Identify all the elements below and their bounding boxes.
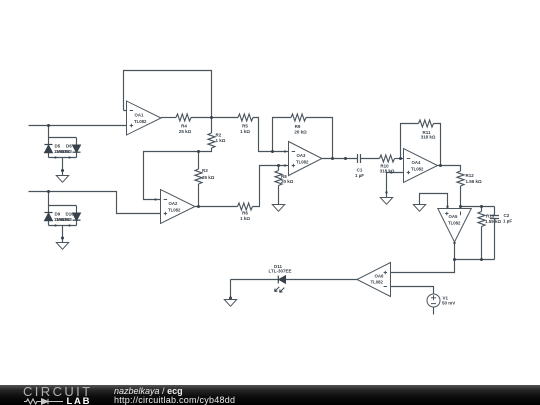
- svg-text:R9: R9: [295, 124, 301, 129]
- wire input B to OA2 plus: [29, 192, 161, 214]
- wire OA1 output: [161, 117, 176, 119]
- capacitor C2: [490, 216, 499, 219]
- svg-text:R3: R3: [202, 168, 208, 173]
- svg-text:TL082: TL082: [296, 159, 309, 164]
- wire OA2 output: [195, 206, 238, 208]
- resistor R11: [419, 120, 434, 127]
- svg-text:R12: R12: [466, 173, 475, 178]
- svg-text:TL082: TL082: [411, 166, 424, 171]
- svg-text:1N6263: 1N6263: [56, 149, 72, 154]
- node R4 R5 R2 feedback junction: [210, 116, 213, 119]
- LED D11: [275, 276, 286, 293]
- footer bar: [0, 385, 540, 405]
- wire OA4 output: [438, 166, 461, 172]
- wire R4 to node: [191, 117, 238, 119]
- svg-text:20 kΩ: 20 kΩ: [281, 179, 294, 184]
- wire R5 to OA3 minus: [253, 118, 289, 152]
- wire R8 to ground: [278, 186, 280, 205]
- svg-text:R6: R6: [242, 210, 248, 215]
- svg-text:OA2: OA2: [169, 201, 178, 206]
- resistor R2: [208, 133, 215, 148]
- resistor R12: [457, 171, 464, 186]
- CircuitLab logo LAB: [67, 396, 92, 405]
- wire input A to OA1 plus: [29, 125, 127, 127]
- op-amp OA1: [127, 101, 162, 135]
- resistor R8: [275, 171, 282, 186]
- capacitor C1: [358, 154, 361, 163]
- svg-text:TL082: TL082: [134, 119, 147, 124]
- svg-text:50 mV: 50 mV: [442, 300, 455, 305]
- wire OA5 output: [391, 242, 495, 273]
- svg-text:R4: R4: [181, 124, 187, 129]
- wire R12 to OA5 minus: [460, 186, 462, 209]
- node R13 bottom terminal: [480, 258, 483, 261]
- ground (OA4 plus): [380, 198, 392, 205]
- svg-text:TL082: TL082: [168, 207, 181, 212]
- node input A tap: [47, 124, 50, 127]
- svg-text:318 kΩ: 318 kΩ: [380, 169, 395, 174]
- logo resistor and diode glyph: [24, 398, 63, 403]
- wire R8 top: [278, 166, 280, 171]
- resistor R5: [238, 114, 253, 121]
- op-amp OA5 (pointing down): [438, 209, 472, 243]
- resistor R6: [238, 203, 253, 210]
- svg-text:LTL-307EE: LTL-307EE: [269, 269, 292, 274]
- wire R2 top: [211, 118, 213, 134]
- CircuitLab logo CIRCUIT: [23, 384, 93, 399]
- resistor R9: [291, 114, 306, 121]
- op-amp OA2: [161, 190, 195, 224]
- node C1 left terminal: [344, 157, 347, 160]
- wire R10 to OA4 minus: [395, 158, 404, 160]
- node OA4 minus feedback junction: [399, 157, 402, 160]
- svg-text:R5: R5: [242, 124, 248, 129]
- svg-text:C1: C1: [357, 167, 363, 172]
- wire R13 top: [481, 207, 483, 212]
- node ground terminal pair2: [61, 237, 64, 240]
- node OA3 plus R8 junction: [277, 164, 280, 167]
- ground (diode pair 2): [56, 243, 68, 250]
- svg-text:1N6263: 1N6263: [56, 217, 72, 222]
- svg-text:TL082: TL082: [448, 220, 461, 225]
- svg-text:1 kΩ: 1 kΩ: [240, 216, 250, 221]
- wire OA1 feedback loop: [124, 71, 212, 118]
- node ground terminal pair1: [61, 169, 64, 172]
- node OA2 output R3 junction: [197, 205, 200, 208]
- node OA5 minus junction: [459, 205, 462, 208]
- resistor R13: [478, 212, 485, 227]
- wire diode pair 1 frame: [49, 126, 77, 176]
- wire OA3 output to C1: [322, 158, 358, 160]
- node OA5 output junction: [453, 258, 456, 261]
- resistor R4: [176, 114, 191, 121]
- wire OA4 feedback left: [401, 124, 419, 159]
- node OA5 output pin terminal: [453, 242, 455, 244]
- wire OA6 minus to V1: [391, 287, 434, 295]
- node OA3 minus terminal: [284, 150, 286, 152]
- svg-text:1 kΩ: 1 kΩ: [216, 138, 226, 143]
- wire C1 to R10: [361, 158, 380, 160]
- junction node dots: [47, 116, 483, 300]
- diode D10: [73, 213, 81, 221]
- node OA3 output feedback junction: [331, 157, 334, 160]
- svg-text:OA6: OA6: [375, 274, 384, 279]
- svg-text:20 kΩ: 20 kΩ: [294, 130, 307, 135]
- wire OA6 output to LED: [286, 279, 358, 281]
- op-amp OA4: [404, 149, 438, 183]
- footer text line 1: [114, 386, 183, 396]
- voltage source V1: [427, 294, 440, 307]
- node R13 top terminal: [480, 205, 483, 208]
- svg-text:1.59 kΩ: 1.59 kΩ: [485, 219, 502, 224]
- svg-text:C2: C2: [504, 213, 510, 218]
- node OA3 plus terminal: [284, 164, 286, 166]
- diode D5: [45, 145, 53, 153]
- svg-text:1 kΩ: 1 kΩ: [240, 129, 250, 134]
- wire R6 to OA3 plus: [253, 166, 289, 207]
- svg-text:25 kΩ: 25 kΩ: [179, 129, 192, 134]
- svg-text:R2: R2: [216, 133, 222, 138]
- svg-text:OA3: OA3: [297, 153, 306, 158]
- op-amp OA6 (pointing left): [357, 263, 391, 297]
- node diode pair2 bottom terminals: [54, 224, 56, 226]
- node OA4 plus terminal: [390, 171, 392, 173]
- node OA3 minus feedback junction: [271, 150, 274, 153]
- wire OA5 minus node to R13 C2: [461, 206, 495, 208]
- node OA4 ground terminal: [385, 191, 387, 193]
- diode D9: [45, 213, 53, 221]
- wire OA4 plus to ground: [387, 173, 404, 198]
- wire R13 bottom: [481, 227, 483, 260]
- wire V1 bottom stub: [433, 307, 435, 315]
- node R2 R3 junction: [197, 150, 200, 153]
- wire R9 right to OA3 output: [306, 118, 333, 159]
- svg-text:TL082: TL082: [371, 280, 384, 285]
- resistor R3: [195, 169, 202, 184]
- node OA4 output feedback junction: [439, 164, 442, 167]
- node OA2 minus terminal: [154, 198, 156, 200]
- diode D6: [73, 145, 81, 153]
- svg-text:OA4: OA4: [412, 160, 421, 165]
- node input B tap: [47, 190, 50, 193]
- svg-text:OA1: OA1: [135, 113, 144, 118]
- wire R11 right to OA4 output: [434, 124, 441, 166]
- wire OA5 plus to ground: [420, 194, 448, 209]
- svg-text:25 kΩ: 25 kΩ: [202, 175, 215, 180]
- svg-text:1 µF: 1 µF: [355, 173, 364, 178]
- wire R2 bottom to OA2 minus: [144, 148, 212, 200]
- ground (LED): [224, 300, 236, 307]
- ground (R8): [272, 205, 284, 212]
- node OA5 plus pin terminal: [446, 206, 448, 208]
- ground (OA5 plus): [413, 205, 425, 212]
- node diode pair1 bottom terminals: [54, 156, 56, 158]
- svg-text:1 µF: 1 µF: [503, 219, 512, 224]
- wire C2 verticals: [494, 207, 496, 260]
- footer text line 2: [114, 395, 235, 405]
- wire diode pair 2 frame: [49, 192, 77, 243]
- wire LED to ground: [231, 280, 279, 300]
- resistor R10: [380, 155, 395, 162]
- wire R3 top: [198, 152, 200, 170]
- ground (diode pair 1): [56, 176, 68, 183]
- svg-text:R8: R8: [281, 174, 287, 179]
- node LED ground terminal: [229, 297, 232, 300]
- svg-text:OA5: OA5: [449, 214, 458, 219]
- wire R3 bottom: [198, 184, 200, 207]
- wire OA3 feedback left: [273, 118, 292, 152]
- svg-text:1.56 kΩ: 1.56 kΩ: [466, 179, 483, 184]
- op-amp OA3: [289, 142, 322, 176]
- svg-text:318 kΩ: 318 kΩ: [421, 135, 436, 140]
